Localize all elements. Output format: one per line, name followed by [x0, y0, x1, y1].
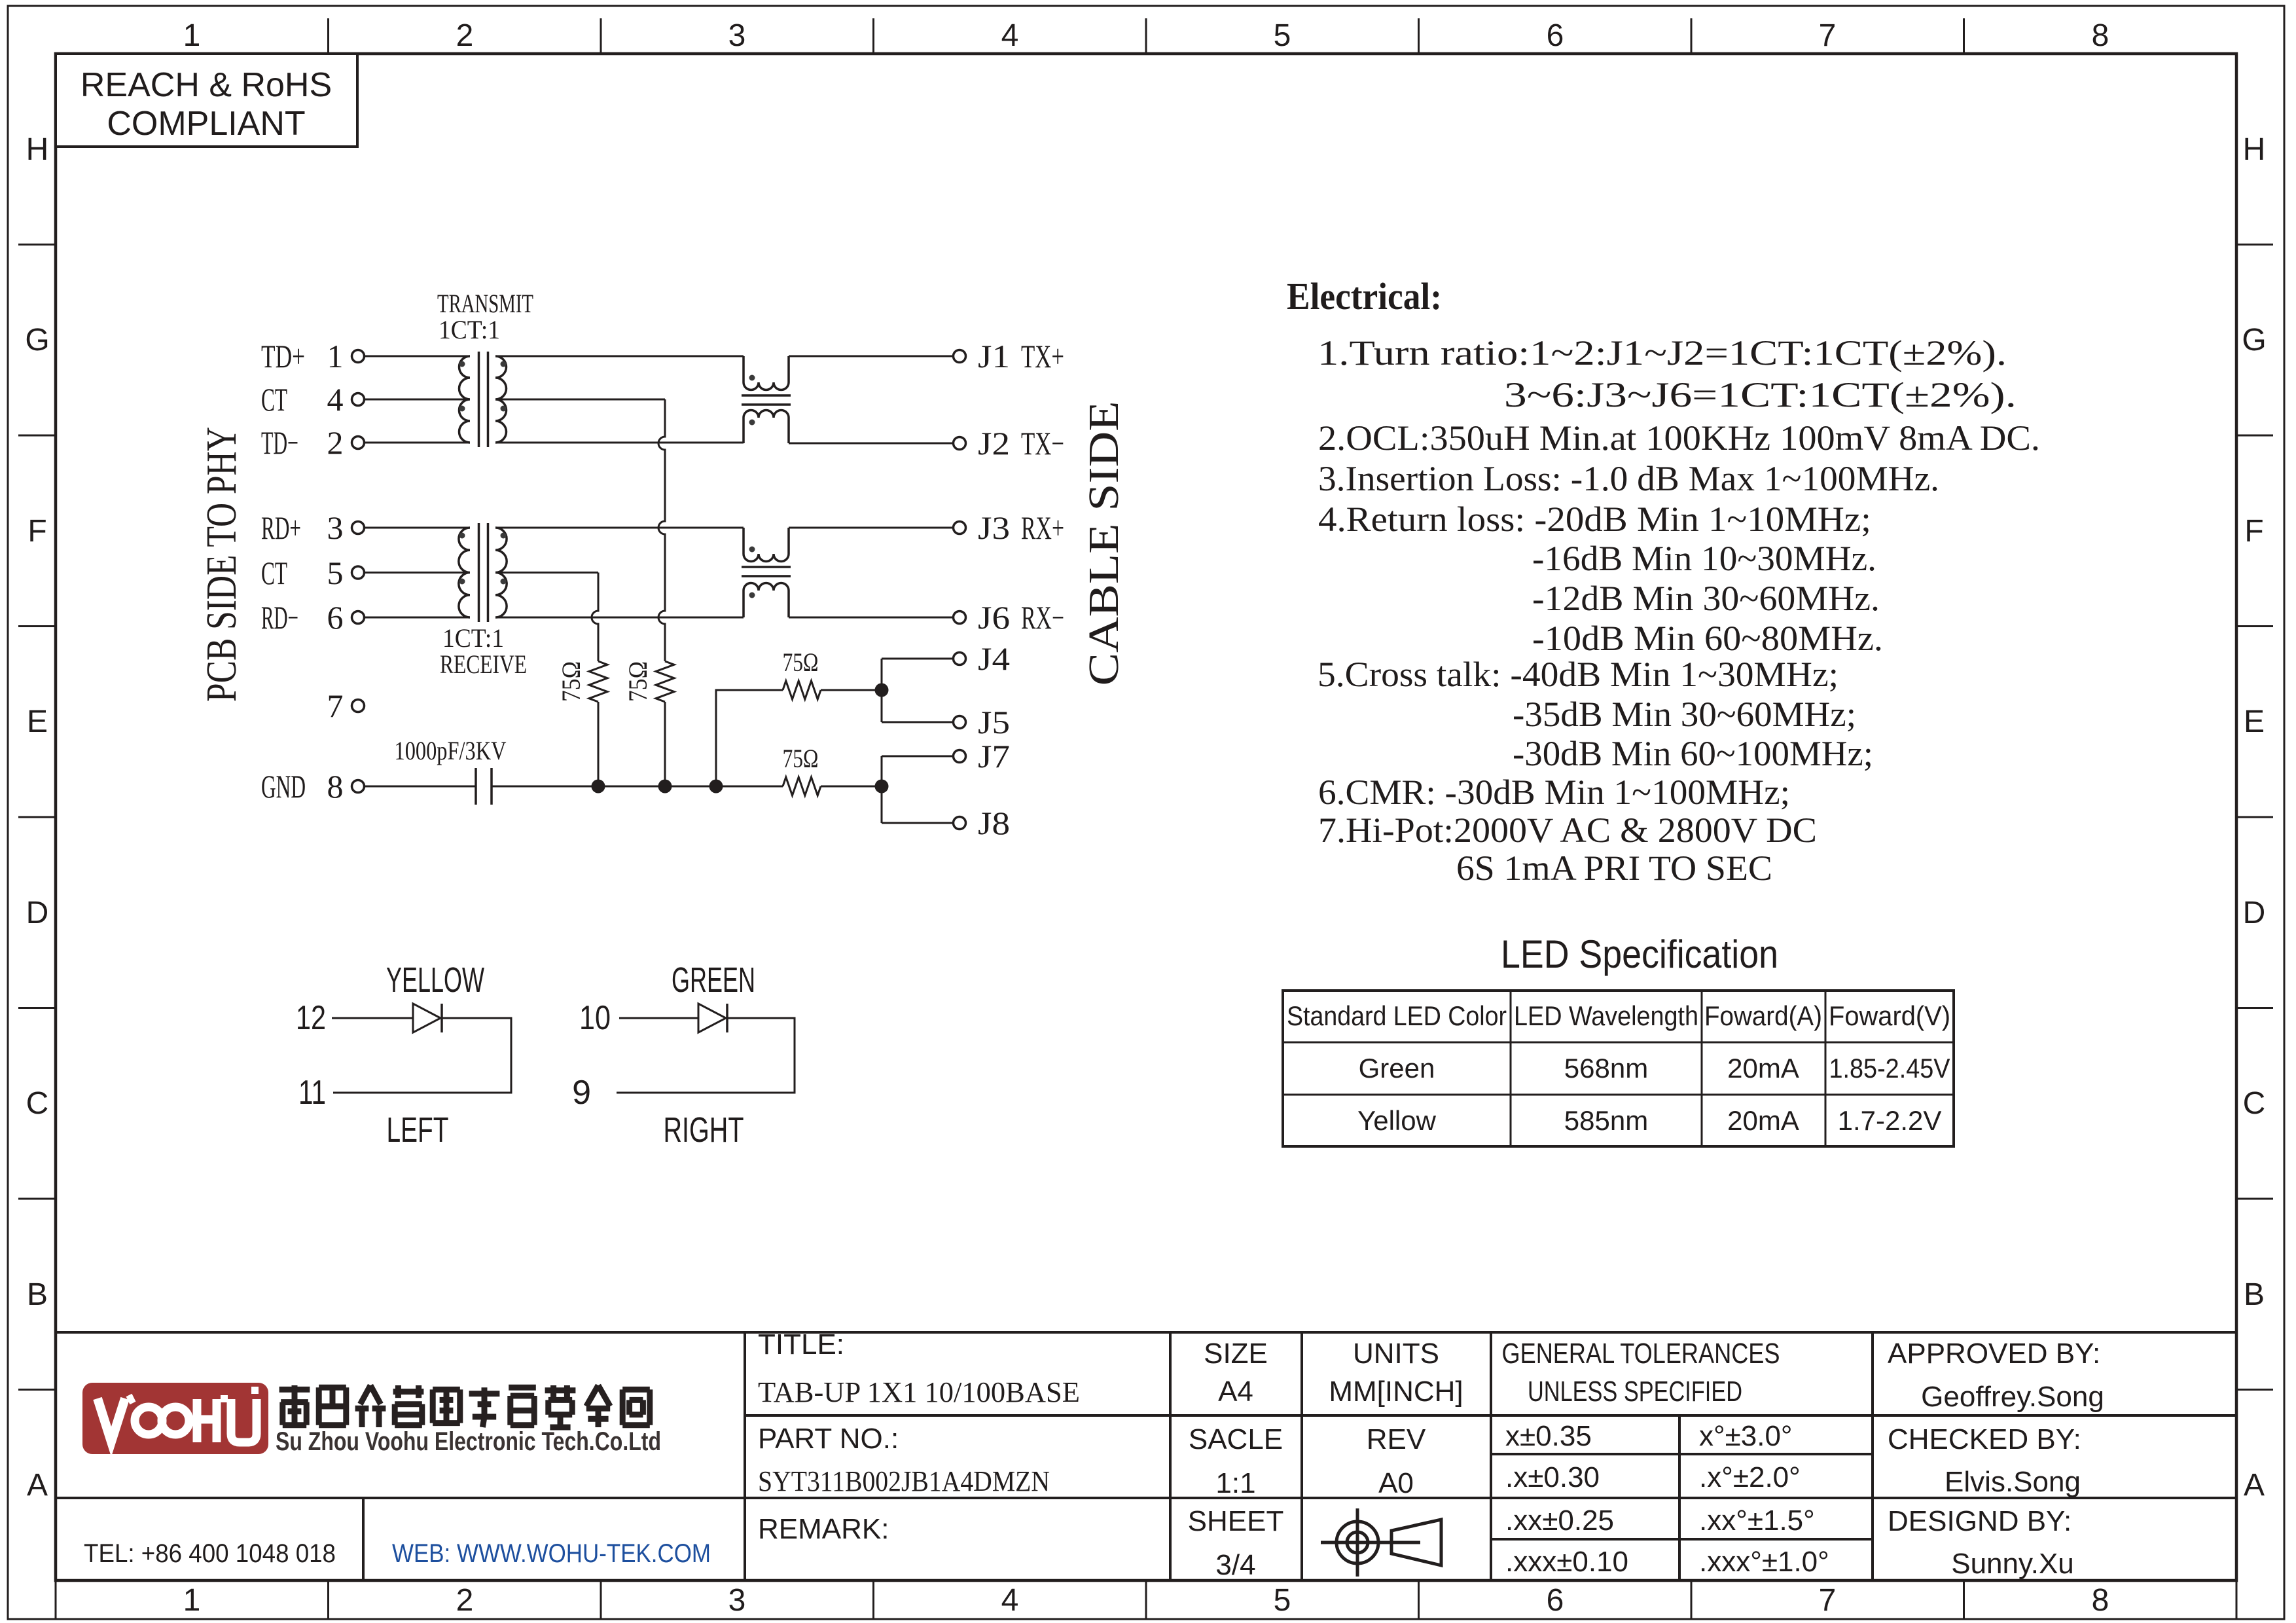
- svg-text:B: B: [2244, 1277, 2265, 1312]
- svg-text:LEFT: LEFT: [387, 1110, 449, 1150]
- svg-text:GENERAL TOLERANCES: GENERAL TOLERANCES: [1502, 1338, 1780, 1370]
- svg-text:TD+: TD+: [261, 338, 305, 374]
- capacitor C1 1000pF/3KV: [476, 768, 492, 805]
- svg-text:DESIGND BY:: DESIGND BY:: [1888, 1505, 2072, 1537]
- svg-text:3.Insertion Loss: -1.0 dB Max: 3.Insertion Loss: -1.0 dB Max 1~100MHz.: [1318, 459, 1939, 498]
- SIZE cell: [1204, 1338, 1268, 1408]
- wire pin 3 to transformer: [365, 527, 471, 529]
- svg-text:RX+: RX+: [1021, 509, 1064, 546]
- svg-text:H: H: [26, 132, 49, 167]
- wire R1 to GND rail: [598, 702, 600, 786]
- svg-text:5: 5: [1274, 1583, 1291, 1618]
- transformer T2 phase dots: [459, 533, 507, 585]
- wire to J6: [789, 617, 954, 619]
- wire T2 bottom to choke L2: [495, 617, 744, 619]
- wire to J4: [882, 658, 954, 660]
- svg-text:GREEN: GREEN: [672, 960, 755, 1000]
- svg-text:585nm: 585nm: [1564, 1105, 1648, 1136]
- junction dots on GND rail: [592, 780, 723, 793]
- junction dot J4/J5 node: [875, 684, 889, 697]
- svg-text:7: 7: [327, 687, 344, 724]
- junction dot J7/J8 node: [875, 780, 889, 793]
- svg-text:1: 1: [183, 1583, 201, 1618]
- svg-text:1000pF/3KV: 1000pF/3KV: [395, 736, 507, 765]
- svg-text:5: 5: [1274, 18, 1291, 53]
- node pin 6 (RD-): [261, 599, 365, 636]
- svg-text:9: 9: [572, 1074, 591, 1112]
- resistor R1 75ohm vertical: [589, 661, 607, 702]
- svg-text:1.7-2.2V: 1.7-2.2V: [1838, 1105, 1942, 1136]
- svg-text:J6: J6: [978, 599, 1010, 636]
- svg-text:RIGHT: RIGHT: [664, 1110, 744, 1150]
- svg-text:Elvis.Song: Elvis.Song: [1945, 1466, 2081, 1498]
- node pin 5 (CT): [261, 555, 365, 591]
- svg-text:D: D: [2243, 896, 2266, 930]
- svg-text:2: 2: [327, 424, 344, 461]
- svg-text:TD−: TD−: [261, 424, 298, 461]
- svg-text:-16dB Min 10~30MHz.: -16dB Min 10~30MHz.: [1532, 539, 1876, 578]
- resistor R3 75ohm: [783, 681, 821, 699]
- first angle projection symbol: [1321, 1508, 1441, 1577]
- svg-text:4: 4: [1001, 18, 1019, 53]
- svg-text:2.OCL:350uH Min.at 100KHz 100m: 2.OCL:350uH Min.at 100KHz 100mV 8mA DC.: [1318, 418, 2040, 458]
- svg-text:RD−: RD−: [261, 599, 298, 636]
- svg-text:8: 8: [2092, 18, 2109, 53]
- svg-text:J3: J3: [978, 509, 1010, 546]
- wire diode D1 to pin 11: [333, 1018, 511, 1093]
- svg-text:Foward(V): Foward(V): [1829, 1000, 1950, 1031]
- svg-text:2: 2: [456, 1583, 474, 1618]
- svg-text:3: 3: [728, 18, 746, 53]
- svg-text:G: G: [25, 323, 49, 357]
- svg-text:3~6:J3~J6=1CT:1CT(±2%).: 3~6:J3~J6=1CT:1CT(±2%).: [1504, 375, 2017, 414]
- svg-text:.xx±0.25: .xx±0.25: [1505, 1504, 1614, 1537]
- svg-text:x°±3.0°: x°±3.0°: [1699, 1420, 1793, 1452]
- svg-text:J7: J7: [978, 738, 1010, 775]
- wire GND rail up to R3: [716, 690, 783, 786]
- diode D2 green LED: [698, 1004, 727, 1032]
- svg-text:COMPLIANT: COMPLIANT: [107, 105, 305, 143]
- svg-text:Electrical:: Electrical:: [1287, 275, 1442, 318]
- svg-text:12: 12: [296, 999, 326, 1037]
- node J6 RX&#8722;: [954, 599, 1065, 636]
- svg-text:TITLE:: TITLE:: [758, 1328, 844, 1360]
- svg-text:TRANSMIT: TRANSMIT: [437, 289, 533, 318]
- svg-text:8: 8: [2092, 1583, 2109, 1618]
- wire T1 bottom to choke L1: [495, 442, 744, 444]
- wire to J8: [882, 822, 954, 824]
- transformer T2 secondary winding: [495, 528, 507, 617]
- svg-text:Standard LED Color: Standard LED Color: [1287, 1000, 1507, 1031]
- wire T1 secondary center tap: [495, 399, 665, 401]
- svg-text:75Ω: 75Ω: [783, 744, 819, 773]
- svg-text:GND: GND: [261, 768, 306, 805]
- svg-text:Geoffrey.Song: Geoffrey.Song: [1921, 1381, 2104, 1413]
- svg-text:5: 5: [327, 555, 344, 591]
- svg-text:J1: J1: [978, 338, 1010, 374]
- svg-text:4: 4: [327, 381, 344, 418]
- wire to J5: [882, 721, 954, 723]
- wire R3 to J4/J5 node: [821, 689, 882, 691]
- svg-text:PART NO.:: PART NO.:: [758, 1423, 899, 1455]
- svg-text:1CT:1: 1CT:1: [439, 315, 500, 344]
- svg-text:11: 11: [298, 1074, 326, 1112]
- svg-text:RD+: RD+: [261, 509, 301, 546]
- svg-text:REV: REV: [1367, 1423, 1426, 1455]
- svg-text:MM[INCH]: MM[INCH]: [1329, 1376, 1463, 1408]
- svg-text:C: C: [2243, 1086, 2266, 1121]
- svg-text:D: D: [26, 896, 49, 930]
- choke L2 bottom winding: [744, 583, 789, 618]
- resistor R2 75ohm vertical: [656, 661, 674, 702]
- node pin 2 (TD-): [261, 424, 365, 461]
- svg-text:B: B: [27, 1277, 48, 1312]
- company name Chinese: [279, 1385, 650, 1427]
- svg-text:7.Hi-Pot:2000V AC & 2800V DC: 7.Hi-Pot:2000V AC & 2800V DC: [1318, 811, 1817, 850]
- svg-text:APPROVED BY:: APPROVED BY:: [1888, 1338, 2100, 1370]
- svg-text:8: 8: [327, 768, 344, 805]
- svg-text:.xxx°±1.0°: .xxx°±1.0°: [1699, 1546, 1829, 1578]
- svg-text:J4: J4: [978, 640, 1010, 677]
- node J4: [954, 640, 1011, 677]
- svg-text:3: 3: [728, 1583, 746, 1618]
- wire T2 secondary center tap: [495, 572, 598, 574]
- diode D1 yellow LED: [413, 1004, 442, 1032]
- label 1CT:1 RECEIVE: [440, 623, 527, 679]
- svg-text:1CT:1: 1CT:1: [442, 623, 504, 653]
- wire T1 top to choke L1: [495, 356, 744, 357]
- node pin 1 (TD+): [261, 338, 365, 374]
- wire to J3: [789, 527, 954, 529]
- wire T2 top to choke L2: [495, 527, 744, 529]
- node J2 TX&#8722;: [954, 425, 1065, 462]
- svg-text:75Ω: 75Ω: [783, 647, 819, 677]
- transformer T1 TRANSMIT primary winding: [459, 356, 471, 443]
- svg-text:J8: J8: [978, 805, 1010, 841]
- svg-text:Green: Green: [1359, 1053, 1435, 1084]
- resistor R4 75ohm: [783, 777, 821, 795]
- svg-text:H: H: [2243, 132, 2266, 167]
- node J1 TX+: [954, 338, 1065, 374]
- DESIGND BY cell: [1888, 1505, 2074, 1580]
- svg-text:Foward(A): Foward(A): [1704, 1000, 1822, 1031]
- node pin 3 (RD+): [261, 509, 365, 546]
- svg-text:J2: J2: [978, 425, 1010, 462]
- svg-text:1:1: 1:1: [1215, 1467, 1255, 1499]
- choke L1 top winding: [744, 356, 789, 390]
- choke L1 phase dots: [749, 375, 755, 426]
- wire pin 10 to diode D2: [619, 1017, 698, 1019]
- svg-text:.x°±2.0°: .x°±2.0°: [1699, 1461, 1801, 1493]
- svg-text:REMARK:: REMARK:: [758, 1513, 889, 1545]
- svg-text:WEB: WWW.WOHU-TEK.COM: WEB: WWW.WOHU-TEK.COM: [392, 1539, 711, 1568]
- svg-text:UNITS: UNITS: [1353, 1338, 1439, 1370]
- svg-text:3/4: 3/4: [1215, 1549, 1255, 1581]
- svg-text:UNLESS SPECIFIED: UNLESS SPECIFIED: [1528, 1376, 1742, 1408]
- CHECKED BY cell: [1888, 1423, 2081, 1498]
- svg-text:Su Zhou Voohu Electronic Tech.: Su Zhou Voohu Electronic Tech.Co.Ltd: [276, 1427, 661, 1456]
- svg-text:1.Turn ratio:1~2:J1~J2=1CT:1CT: 1.Turn ratio:1~2:J1~J2=1CT:1CT(±2%).: [1318, 333, 2007, 373]
- svg-text:SHEET: SHEET: [1188, 1505, 1284, 1537]
- VOOHU logo: [82, 1383, 268, 1454]
- SHEET cell: [1188, 1505, 1284, 1581]
- REV cell: [1367, 1423, 1426, 1499]
- wire to J1: [789, 356, 954, 357]
- svg-text:4: 4: [1001, 1583, 1019, 1618]
- svg-text:SYT311B002JB1A4DMZN: SYT311B002JB1A4DMZN: [758, 1465, 1050, 1497]
- choke L2 top winding: [744, 528, 789, 562]
- APPROVED BY cell: [1888, 1338, 2104, 1413]
- svg-text:CHECKED BY:: CHECKED BY:: [1888, 1423, 2081, 1455]
- LED specification table grid: [1283, 991, 1954, 1146]
- choke L2 core: [742, 567, 791, 576]
- svg-text:.xx°±1.5°: .xx°±1.5°: [1699, 1504, 1815, 1537]
- svg-text:Yellow: Yellow: [1357, 1105, 1437, 1136]
- svg-text:75Ω: 75Ω: [623, 661, 653, 702]
- svg-text:-12dB Min 30~60MHz.: -12dB Min 30~60MHz.: [1532, 579, 1880, 618]
- wire pin8 to capacitor C1: [365, 786, 476, 788]
- wire J7/J8 branch: [881, 756, 883, 823]
- svg-text:F: F: [27, 514, 46, 549]
- svg-text:E: E: [2244, 704, 2265, 739]
- svg-text:5.Cross talk: -40dB Min 1~30MH: 5.Cross talk: -40dB Min 1~30MHz;: [1318, 655, 1839, 694]
- svg-text:20mA: 20mA: [1727, 1053, 1799, 1084]
- svg-text:CABLE SIDE: CABLE SIDE: [1080, 401, 1128, 686]
- svg-text:A: A: [27, 1468, 48, 1503]
- svg-text:-30dB Min 60~100MHz;: -30dB Min 60~100MHz;: [1513, 734, 1873, 773]
- svg-text:10: 10: [579, 999, 611, 1037]
- svg-text:A: A: [2244, 1468, 2265, 1503]
- tolerance values: [1505, 1420, 1829, 1578]
- svg-text:6: 6: [1547, 18, 1564, 53]
- svg-text:75Ω: 75Ω: [556, 661, 586, 702]
- svg-text:LED Wavelength: LED Wavelength: [1514, 1000, 1698, 1031]
- svg-text:SIZE: SIZE: [1204, 1338, 1268, 1370]
- UNITS cell: [1329, 1338, 1463, 1408]
- TITLE cell: [758, 1328, 1080, 1408]
- Electrical specification list: [1318, 333, 2040, 888]
- svg-text:1.85-2.45V: 1.85-2.45V: [1829, 1053, 1950, 1084]
- wire T2 tap vertical with hop to R1: [592, 573, 598, 662]
- svg-text:A0: A0: [1378, 1467, 1414, 1499]
- GENERAL TOLERANCES cell: [1502, 1338, 1780, 1408]
- node J7: [954, 738, 1011, 775]
- svg-text:REACH & RoHS: REACH & RoHS: [81, 66, 332, 104]
- svg-text:1: 1: [183, 18, 201, 53]
- svg-text:x±0.35: x±0.35: [1505, 1420, 1592, 1452]
- svg-text:TEL: +86 400 1048 018: TEL: +86 400 1048 018: [84, 1539, 336, 1568]
- svg-text:6: 6: [327, 599, 344, 636]
- wire GND rail: [492, 786, 783, 788]
- svg-text:6S 1mA PRI TO SEC: 6S 1mA PRI TO SEC: [1456, 848, 1772, 888]
- choke L2 phase dots: [749, 547, 755, 598]
- wire to J2: [789, 443, 954, 445]
- svg-text:-10dB Min 60~80MHz.: -10dB Min 60~80MHz.: [1532, 619, 1883, 658]
- svg-text:4.Return loss: -20dB Min 1~10M: 4.Return loss: -20dB Min 1~10MHz;: [1318, 500, 1871, 539]
- svg-text:CT: CT: [261, 555, 287, 591]
- PART NO cell: [758, 1423, 1050, 1497]
- wire diode D2 to pin 9: [617, 1018, 795, 1093]
- svg-text:A4: A4: [1218, 1376, 1253, 1408]
- svg-text:7: 7: [1819, 18, 1837, 53]
- svg-text:1: 1: [327, 338, 344, 374]
- svg-text:RECEIVE: RECEIVE: [440, 649, 527, 679]
- svg-text:CT: CT: [261, 381, 287, 418]
- svg-text:C: C: [26, 1086, 49, 1121]
- node pin 7 (NC): [327, 687, 365, 724]
- wire pin 2 to transformer: [365, 442, 471, 444]
- REACH & RoHS compliant box: [56, 54, 357, 147]
- title block grid: [56, 1332, 2236, 1580]
- svg-text:F: F: [2244, 514, 2263, 549]
- choke L1 core: [742, 395, 791, 405]
- svg-text:6: 6: [1547, 1583, 1564, 1618]
- svg-text:J5: J5: [978, 704, 1010, 740]
- wire pin 12 to diode D1: [332, 1017, 413, 1019]
- transformer T1 core: [479, 352, 488, 447]
- node J3 RX+: [954, 509, 1065, 546]
- wire center tap vertical with hops to R2: [658, 399, 665, 661]
- SACLE cell: [1189, 1423, 1283, 1499]
- svg-text:2: 2: [456, 18, 474, 53]
- svg-text:6.CMR: -30dB Min 1~100MHz;: 6.CMR: -30dB Min 1~100MHz;: [1318, 773, 1790, 812]
- svg-text:3: 3: [327, 509, 344, 546]
- svg-text:7: 7: [1819, 1583, 1837, 1618]
- svg-text:G: G: [2242, 323, 2266, 357]
- svg-text:20mA: 20mA: [1727, 1105, 1799, 1136]
- node J5: [954, 704, 1011, 740]
- transformer T1 phase dots: [459, 361, 507, 412]
- wire to J7: [882, 756, 954, 757]
- svg-text:Sunny.Xu: Sunny.Xu: [1951, 1548, 2074, 1580]
- svg-text:RX−: RX−: [1021, 599, 1064, 636]
- wire J4/J5 branch: [881, 659, 883, 722]
- transformer T2 core: [479, 523, 488, 622]
- svg-text:568nm: 568nm: [1564, 1053, 1648, 1084]
- wire pin 6 to transformer: [365, 617, 471, 619]
- wire pin 5 to transformer: [365, 572, 471, 574]
- svg-text:TX+: TX+: [1021, 338, 1064, 374]
- wire pin 1 to transformer: [365, 356, 471, 357]
- choke L1 bottom winding: [744, 410, 789, 444]
- svg-text:SACLE: SACLE: [1189, 1423, 1283, 1455]
- svg-text:.x±0.30: .x±0.30: [1505, 1461, 1600, 1493]
- svg-text:LED Specification: LED Specification: [1501, 932, 1778, 976]
- label TRANSMIT 1CT:1: [437, 289, 533, 344]
- svg-text:TAB-UP 1X1 10/100BASE: TAB-UP 1X1 10/100BASE: [758, 1376, 1080, 1408]
- node pin 8 (GND): [261, 768, 365, 805]
- svg-text:.xxx±0.10: .xxx±0.10: [1505, 1546, 1628, 1578]
- frame row tick marks: [18, 245, 2273, 1390]
- svg-text:PCB SIDE TO PHY: PCB SIDE TO PHY: [198, 427, 245, 702]
- wire R2 to GND rail: [664, 702, 666, 786]
- svg-text:YELLOW: YELLOW: [386, 960, 484, 1000]
- node J8: [954, 805, 1011, 841]
- svg-text:TX−: TX−: [1021, 425, 1064, 462]
- wire pin 4 to transformer: [365, 399, 471, 401]
- LED specification table text: [1287, 1000, 1950, 1136]
- transformer T1 secondary winding: [495, 356, 507, 443]
- node pin 4 (CT): [261, 381, 365, 418]
- transformer T2 RECEIVE primary winding: [459, 528, 470, 617]
- svg-text:-35dB Min 30~60MHz;: -35dB Min 30~60MHz;: [1513, 695, 1856, 734]
- wire R4 to J7/J8 node: [821, 786, 882, 788]
- svg-text:E: E: [27, 704, 48, 739]
